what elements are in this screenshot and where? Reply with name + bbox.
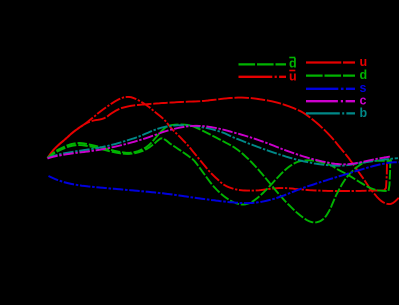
legend line c xyxy=(306,100,355,102)
curve dbar (green dashed, shelf + jump) xyxy=(48,138,391,204)
curve u (red long-dash, broad arc + right hook) xyxy=(48,98,399,205)
legend line s xyxy=(306,88,355,90)
curve ubar (red dash-dot, early peak) xyxy=(48,97,388,191)
legend label ubar xyxy=(289,70,297,84)
legend line dbar (green dashed) xyxy=(239,63,287,65)
svg-text:d: d xyxy=(289,57,297,71)
legend line b xyxy=(306,112,355,114)
legend label dbar xyxy=(289,57,297,71)
curve c (magenta dash-dot) xyxy=(48,126,392,165)
legend line u xyxy=(306,61,355,63)
curve d (green dashed, deep U dip) xyxy=(48,125,393,223)
svg-text:b: b xyxy=(360,106,368,120)
legend line ubar (red dash-dot) xyxy=(239,76,287,78)
curve b (teal dash-dot) xyxy=(48,125,399,166)
svg-text:d: d xyxy=(360,68,368,82)
curve s (blue dash-dot) xyxy=(49,162,399,203)
svg-text:u: u xyxy=(360,55,368,69)
legend line d xyxy=(306,74,355,76)
svg-text:u: u xyxy=(289,70,297,84)
